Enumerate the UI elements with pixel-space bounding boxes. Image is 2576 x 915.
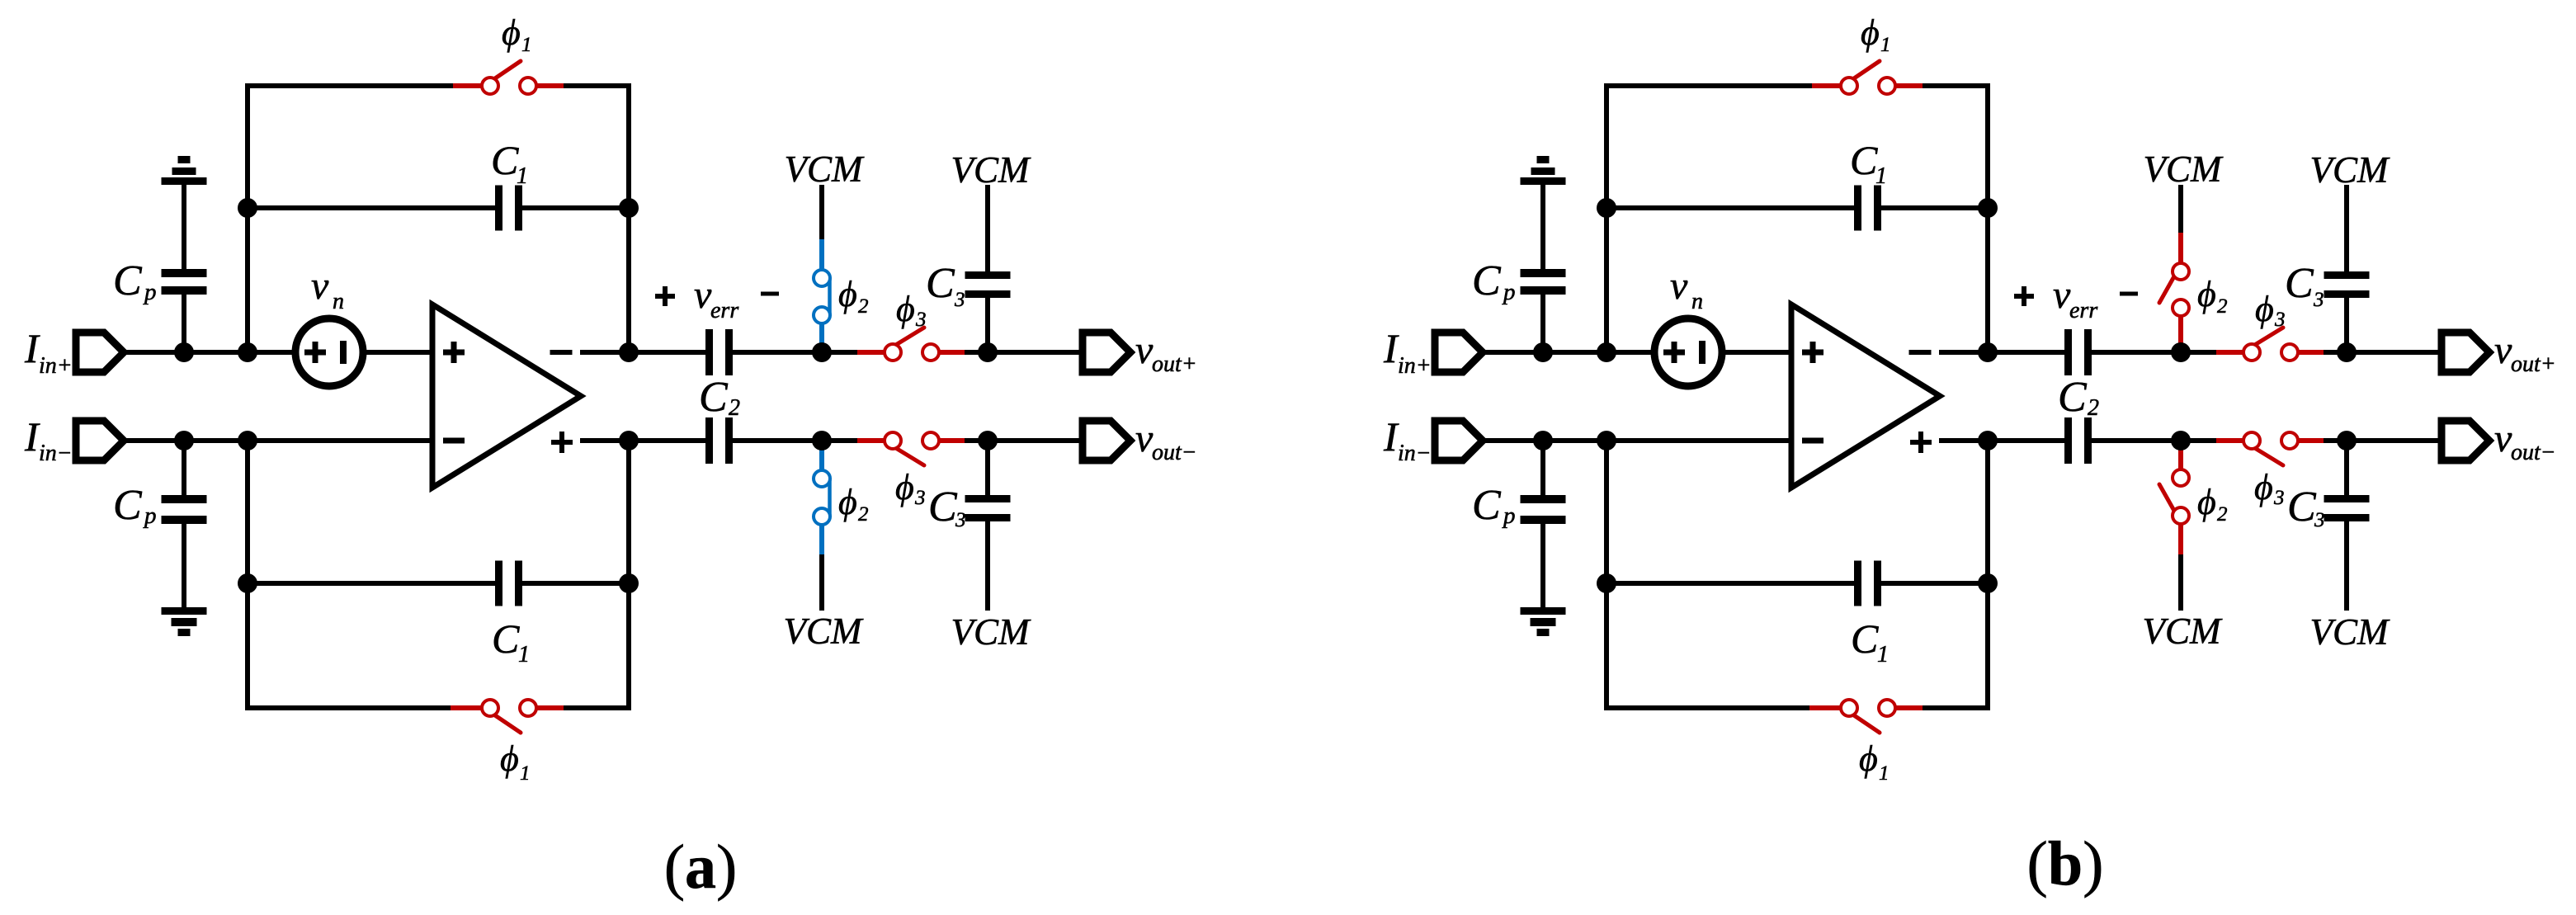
svg-text:p: p [143, 279, 157, 305]
capacitor C3 (bottom, b) [2324, 495, 2370, 521]
node out+ right vertical (b) [1978, 342, 1998, 362]
svg-text:C: C [1850, 137, 1878, 183]
label Cp (top, a) [113, 257, 157, 305]
label phi1 (bottom, a) [500, 738, 531, 785]
node out+ right vertical (a) [619, 342, 639, 362]
switch phi2 (bottom, b) [2159, 441, 2189, 554]
svg-text:VCM: VCM [951, 149, 1032, 191]
label C3 (top, b) [2285, 260, 2324, 311]
svg-text:C: C [1472, 257, 1502, 304]
wire Cp to input node (b) [1540, 295, 1545, 352]
switch phi1 (top, a) [453, 61, 564, 94]
wire C3 to VCM bottom (b) [2344, 521, 2349, 611]
label I_in+ (a) [24, 325, 73, 379]
svg-text:1: 1 [521, 34, 532, 56]
node C1 bottom right (a) [619, 573, 639, 593]
node C3 bottom (b) [2337, 431, 2357, 450]
label v_err - (a) [761, 292, 779, 296]
svg-text:C: C [1851, 616, 1879, 662]
svg-text:v: v [2494, 328, 2512, 372]
wire C3 to VCM bottom (a) [985, 521, 990, 611]
svg-text:C: C [113, 482, 143, 529]
label phi2 (top, a) [838, 274, 869, 318]
wire VCM to C3 top (a) [985, 185, 990, 271]
net VCM (bottom C3, b) [2310, 611, 2391, 653]
label C1 (top, b) [1850, 137, 1887, 189]
node input+ Cp (a) [174, 342, 194, 362]
wire I_in- to op-amp (b) [1483, 438, 1791, 443]
svg-text:in+: in+ [39, 353, 73, 379]
node input- left vertical (b) [1597, 431, 1616, 450]
terminal I_in- (b) [1435, 421, 1483, 460]
label v_n (a) [311, 264, 344, 314]
label C2 (b) [2058, 374, 2099, 421]
capacitor C2 (bottom, b) [2064, 417, 2092, 464]
wire ground to Cp top (a) [182, 185, 186, 270]
svg-text:ϕ: ϕ [896, 289, 915, 329]
capacitor C1 (top, b) [1606, 186, 1988, 231]
wire C2 to phi2 node bottom (b) [2092, 438, 2216, 443]
wire C2 to phi2 node bottom (a) [733, 438, 857, 443]
switch phi1 (bottom, a) [451, 700, 564, 733]
label C1 (bottom, b) [1851, 616, 1889, 667]
svg-text:C: C [928, 483, 958, 531]
label v_err (a) [694, 273, 738, 323]
svg-text:ϕ: ϕ [1861, 12, 1880, 53]
node phi2 bottom (a) [812, 431, 832, 450]
wire input node to Cp bottom (b) [1540, 441, 1545, 495]
switch phi3 (bottom, a) [857, 432, 965, 465]
terminal v_out- (b) [2442, 421, 2489, 460]
node C1 top left (a) [238, 198, 257, 218]
wire top loop left (b) [1606, 86, 1812, 352]
caption (a) [664, 832, 738, 902]
wire v_n to op-amp (a) [360, 350, 432, 355]
svg-text:I: I [24, 413, 40, 460]
node out- right vertical (a) [619, 431, 639, 450]
terminal v_out+ (b) [2442, 333, 2489, 372]
wire input node to Cp bottom (a) [182, 441, 186, 495]
svg-text:ϕ: ϕ [502, 12, 521, 53]
label C2 (a) [699, 374, 740, 421]
svg-text:C: C [926, 260, 955, 307]
wire top loop left (a) [248, 86, 453, 352]
wire out node to C3 bottom (a) [985, 441, 990, 495]
svg-text:C: C [699, 374, 729, 421]
svg-text:out−: out− [2511, 440, 2556, 465]
wire I_in+ to v_n (b) [1483, 350, 1658, 355]
op-amp output - polarity (a) [550, 350, 573, 355]
wire Cp to ground bottom (b) [1540, 524, 1545, 607]
svg-text:I: I [1383, 413, 1399, 460]
switch phi3 (top, a) [857, 328, 965, 361]
terminal v_out+ (a) [1083, 333, 1130, 372]
label phi2 (bottom, b) [2197, 482, 2228, 526]
wire op-amp out+ to C2 top (b) [1939, 350, 2064, 355]
svg-text:v: v [2053, 273, 2071, 317]
svg-text:err: err [710, 298, 738, 323]
svg-text:in−: in− [1398, 441, 1432, 466]
net VCM (top C3, a) [951, 149, 1032, 191]
svg-text:3: 3 [954, 289, 965, 311]
svg-text:VCM: VCM [784, 611, 865, 652]
node C1 top right (b) [1978, 198, 1998, 218]
label C3 (bottom, b) [2287, 483, 2325, 531]
label v_err - (b) [2120, 292, 2138, 296]
label phi2 (bottom, a) [838, 482, 869, 526]
node C1 bottom left (b) [1597, 573, 1616, 593]
capacitor C3 (top, a) [965, 271, 1011, 298]
net VCM (top C3, b) [2310, 149, 2391, 191]
net VCM (bottom phi2, a) [784, 611, 865, 652]
switch phi2 (top, a) [814, 239, 830, 352]
capacitor C1 (bottom, a) [248, 561, 629, 606]
svg-text:I: I [1383, 325, 1399, 371]
terminal v_out- (a) [1083, 421, 1130, 460]
node input+ Cp (b) [1533, 342, 1553, 362]
label phi3 (bottom, a) [895, 467, 926, 509]
svg-text:v: v [1135, 328, 1154, 372]
svg-text:C: C [491, 137, 519, 183]
svg-text:ϕ: ϕ [2255, 289, 2274, 329]
svg-text:3: 3 [2314, 509, 2325, 531]
label phi3 (top, b) [2255, 289, 2286, 331]
source v_n (a) [295, 318, 363, 386]
svg-text:3: 3 [2273, 487, 2285, 509]
node C3 top (a) [978, 342, 998, 362]
wire Cp to ground bottom (a) [182, 524, 186, 607]
svg-text:3: 3 [955, 509, 966, 531]
source v_n (b) [1654, 318, 1722, 386]
svg-text:2: 2 [2217, 503, 2228, 526]
label v_n (b) [1670, 264, 1703, 314]
svg-text:1: 1 [517, 163, 528, 189]
label v_err (b) [2053, 273, 2097, 323]
svg-text:out+: out+ [2511, 351, 2556, 377]
wire Cp to input node (a) [182, 295, 186, 352]
svg-text:C: C [1472, 482, 1502, 529]
svg-text:v: v [311, 264, 329, 308]
label v_err + (b) [2014, 286, 2034, 306]
svg-text:(b): (b) [2027, 829, 2104, 898]
wire C2 to phi2 node top (b) [2092, 350, 2216, 355]
wire VCM to phi2 top (a) [819, 185, 824, 239]
op-amp output - polarity (b) [1909, 350, 1932, 355]
node C1 bottom left (a) [238, 573, 257, 593]
label phi3 (bottom, b) [2254, 467, 2285, 509]
net VCM (bottom C3, a) [951, 611, 1032, 653]
svg-text:v: v [2494, 417, 2512, 460]
label C1 (bottom, a) [492, 616, 530, 667]
wire phi2 to VCM bottom (b) [2178, 554, 2183, 611]
svg-text:VCM: VCM [2144, 149, 2225, 190]
node C3 bottom (a) [978, 431, 998, 450]
svg-text:VCM: VCM [2310, 611, 2391, 653]
label phi1 (top, a) [502, 12, 532, 56]
switch phi1 (bottom, b) [1809, 700, 1923, 733]
ground (top, b) [1521, 156, 1566, 185]
wire VCM to C3 top (b) [2344, 185, 2349, 271]
svg-text:out+: out+ [1152, 351, 1197, 377]
svg-text:in+: in+ [1398, 353, 1432, 379]
node C3 top (b) [2337, 342, 2357, 362]
svg-text:1: 1 [1879, 762, 1890, 785]
switch phi2 (top, b) [2159, 233, 2189, 352]
wire ground to Cp top (b) [1540, 185, 1545, 270]
svg-text:1: 1 [1875, 163, 1887, 189]
node input- Cp (a) [174, 431, 194, 450]
svg-text:n: n [1691, 289, 1703, 314]
net VCM (top phi2, b) [2144, 149, 2225, 190]
wire C3 to out node top (a) [985, 298, 990, 352]
svg-text:v: v [1670, 264, 1688, 308]
capacitor C1 (bottom, b) [1606, 561, 1988, 606]
node C1 top left (b) [1597, 198, 1616, 218]
capacitor C1 (top, a) [248, 186, 629, 231]
label I_in- (b) [1383, 413, 1432, 466]
node phi2 bottom (b) [2171, 431, 2191, 450]
op-amp U1 (b) [1791, 304, 1940, 488]
svg-text:VCM: VCM [951, 611, 1032, 653]
svg-text:ϕ: ϕ [838, 274, 857, 314]
node input+ left vertical (a) [238, 342, 257, 362]
label C1 (top, a) [491, 137, 528, 189]
wire v_n to op-amp (b) [1719, 350, 1791, 355]
svg-text:C: C [2287, 483, 2317, 531]
node out- right vertical (b) [1978, 431, 1998, 450]
op-amp output + polarity (a) [551, 432, 573, 453]
node phi2 top (b) [2171, 342, 2191, 362]
svg-text:ϕ: ϕ [500, 738, 519, 779]
label I_in+ (b) [1383, 325, 1432, 379]
svg-text:C: C [2058, 374, 2088, 421]
wire VCM to phi2 top (b) [2178, 185, 2183, 233]
svg-text:in−: in− [39, 441, 73, 466]
wire I_in- to op-amp (a) [124, 438, 432, 443]
wire bottom loop right (b) [1923, 441, 1988, 708]
svg-text:out−: out− [1152, 440, 1197, 465]
svg-text:C: C [113, 257, 143, 304]
svg-text:ϕ: ϕ [1859, 738, 1878, 779]
svg-text:p: p [1502, 502, 1516, 529]
wire C3 to out node top (b) [2344, 298, 2349, 352]
svg-text:3: 3 [914, 487, 926, 509]
ground (top, a) [162, 156, 207, 185]
node input- Cp (b) [1533, 431, 1553, 450]
wire bottom loop left (b) [1606, 441, 1809, 708]
capacitor C3 (bottom, a) [965, 495, 1011, 521]
label v_err + (a) [655, 286, 675, 306]
label v_out- (a) [1135, 417, 1197, 465]
wire top loop right (b) [1923, 86, 1988, 352]
op-amp output + polarity (b) [1910, 432, 1932, 453]
svg-text:2: 2 [2088, 395, 2099, 421]
node phi2 top (a) [812, 342, 832, 362]
terminal I_in+ (a) [76, 333, 124, 372]
capacitor C2 (bottom, a) [705, 417, 733, 464]
capacitor C2 (top, b) [2064, 329, 2092, 375]
svg-text:1: 1 [520, 762, 531, 785]
label phi3 (top, a) [896, 289, 927, 331]
label v_out+ (a) [1135, 328, 1197, 377]
label C3 (top, a) [926, 260, 965, 311]
wire phi3 to v_out- (a) [965, 438, 1083, 443]
wire out node to C3 bottom (b) [2344, 441, 2349, 495]
svg-text:1: 1 [1877, 642, 1889, 667]
svg-text:p: p [1502, 279, 1516, 305]
label Cp (bottom, b) [1472, 482, 1516, 529]
capacitor Cp (top, a) [162, 269, 207, 295]
label phi2 (top, b) [2197, 274, 2228, 318]
svg-text:3: 3 [2274, 309, 2286, 331]
svg-text:ϕ: ϕ [2197, 274, 2216, 314]
net VCM (top phi2, a) [785, 149, 866, 190]
node input+ left vertical (b) [1597, 342, 1616, 362]
svg-text:2: 2 [2217, 295, 2228, 318]
wire phi3 to v_out- (b) [2324, 438, 2442, 443]
svg-text:ϕ: ϕ [838, 482, 857, 522]
node C1 top right (a) [619, 198, 639, 218]
capacitor C3 (top, b) [2324, 271, 2370, 298]
switch phi2 (bottom, a) [814, 441, 830, 554]
svg-text:err: err [2069, 298, 2097, 323]
wire bottom loop left (a) [248, 441, 451, 708]
label Cp (top, b) [1472, 257, 1516, 305]
switch phi1 (top, b) [1812, 61, 1923, 94]
svg-text:VCM: VCM [2143, 611, 2224, 652]
svg-text:3: 3 [2313, 289, 2324, 311]
svg-text:ϕ: ϕ [2197, 482, 2216, 522]
switch phi3 (top, b) [2216, 328, 2324, 361]
wire phi2 to VCM bottom (a) [819, 554, 824, 611]
wire bottom loop right (a) [564, 441, 629, 708]
svg-text:ϕ: ϕ [895, 467, 914, 507]
svg-text:2: 2 [858, 295, 869, 318]
wire op-amp out+ to C2 top (a) [580, 350, 705, 355]
svg-text:3: 3 [915, 309, 927, 331]
svg-text:ϕ: ϕ [2254, 467, 2273, 507]
label Cp (bottom, a) [113, 482, 157, 529]
capacitor Cp (top, b) [1521, 269, 1566, 295]
svg-text:C: C [492, 616, 520, 662]
svg-text:VCM: VCM [785, 149, 866, 190]
terminal I_in- (a) [76, 421, 124, 460]
ground (bottom, a) [162, 607, 207, 636]
label C3 (bottom, a) [928, 483, 966, 531]
terminal I_in+ (b) [1435, 333, 1483, 372]
svg-text:(a): (a) [664, 832, 738, 902]
label v_out+ (b) [2494, 328, 2556, 377]
label phi1 (bottom, b) [1859, 738, 1890, 785]
net VCM (bottom phi2, b) [2143, 611, 2224, 652]
svg-text:2: 2 [858, 503, 869, 526]
op-amp U1 (a) [432, 304, 581, 488]
svg-text:v: v [1135, 417, 1154, 460]
svg-text:1: 1 [1880, 34, 1891, 56]
wire op-amp out- to C2 bottom (b) [1939, 438, 2064, 443]
label v_out- (b) [2494, 417, 2556, 465]
svg-text:v: v [694, 273, 712, 317]
wire phi3 to v_out+ (b) [2324, 350, 2442, 355]
label I_in- (a) [24, 413, 73, 466]
wire top loop right (a) [564, 86, 629, 352]
capacitor Cp (bottom, a) [162, 495, 207, 524]
svg-text:I: I [24, 325, 40, 371]
svg-text:VCM: VCM [2310, 149, 2391, 191]
wire phi3 to v_out+ (a) [965, 350, 1083, 355]
node input- left vertical (a) [238, 431, 257, 450]
wire C2 to phi2 node top (a) [733, 350, 857, 355]
caption (b) [2027, 829, 2104, 898]
label phi1 (top, b) [1861, 12, 1891, 56]
wire op-amp out- to C2 bottom (a) [580, 438, 705, 443]
wire I_in+ to v_n (a) [124, 350, 299, 355]
svg-text:n: n [333, 289, 344, 314]
node C1 bottom right (b) [1978, 573, 1998, 593]
ground (bottom, b) [1521, 607, 1566, 636]
svg-text:C: C [2285, 260, 2314, 307]
svg-text:p: p [143, 502, 157, 529]
svg-text:2: 2 [729, 395, 740, 421]
svg-text:1: 1 [518, 642, 530, 667]
capacitor C2 (top, a) [705, 329, 733, 375]
switch phi3 (bottom, b) [2216, 432, 2324, 465]
capacitor Cp (bottom, b) [1521, 495, 1566, 524]
